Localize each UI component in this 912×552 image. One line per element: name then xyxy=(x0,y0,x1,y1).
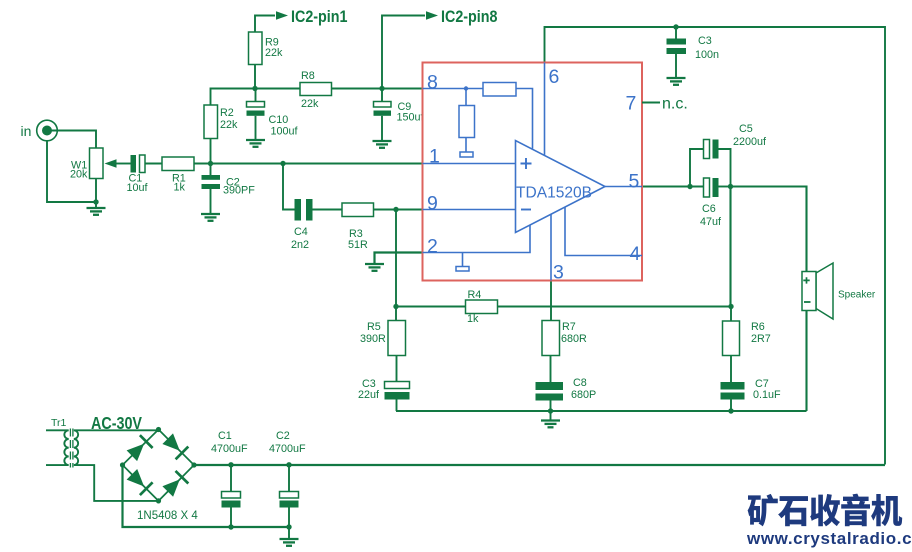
svg-text:1: 1 xyxy=(429,145,440,167)
wire pin3 internal xyxy=(550,214,552,281)
svg-text:C1: C1 xyxy=(218,430,232,442)
svg-text:IC2-pin1: IC2-pin1 xyxy=(291,8,348,26)
svg-text:22k: 22k xyxy=(265,47,283,59)
junction node R9/C10/R8 xyxy=(252,86,257,91)
svg-text:1N5408 X 4: 1N5408 X 4 xyxy=(137,510,198,522)
diode D2 (T to R) xyxy=(162,433,188,459)
wire bootstrap rail pin8 xyxy=(211,89,423,164)
svg-text:20k: 20k xyxy=(70,169,88,181)
diode D4 (B to R) xyxy=(162,471,188,497)
wire R7 to C8 xyxy=(550,356,552,383)
wire feedback rail xyxy=(396,305,731,307)
svg-text:680R: 680R xyxy=(561,333,587,345)
arrowhead W1 wiper xyxy=(105,159,117,167)
capacitor C7 xyxy=(721,382,745,400)
wire C1 to R1 xyxy=(145,163,162,165)
wire C5 left branch xyxy=(690,149,704,187)
svg-text:3: 3 xyxy=(553,262,564,284)
wire C3 to bottom rail xyxy=(396,400,398,412)
capacitor C1 xyxy=(131,155,146,173)
svg-text:C5: C5 xyxy=(739,123,753,135)
wire C7 to bottom rail xyxy=(730,400,732,412)
resistor R7 xyxy=(542,321,560,356)
wire pin5 to C6 xyxy=(642,186,704,188)
label speaker - xyxy=(804,301,811,303)
svg-text:100uf: 100uf xyxy=(271,126,299,138)
wire to bottom ground xyxy=(550,411,552,421)
svg-text:C4: C4 xyxy=(294,226,308,238)
wire pin4 internal xyxy=(565,207,642,255)
watermark logo text xyxy=(748,494,903,527)
wire W1 bottom to ground node xyxy=(95,179,97,209)
svg-text:C2: C2 xyxy=(276,430,290,442)
wire pin3 to R7 xyxy=(550,281,552,321)
capacitor C3 100n xyxy=(667,39,687,55)
svg-text:2200uf: 2200uf xyxy=(733,136,767,148)
diode D1 (L to T) xyxy=(127,435,153,461)
wire pin1 internal xyxy=(423,163,516,165)
wire node to C4 xyxy=(283,164,295,210)
svg-text:Tr1: Tr1 xyxy=(51,417,67,429)
svg-text:R4: R4 xyxy=(468,289,482,301)
svg-text:in: in xyxy=(21,123,32,139)
svg-text:5: 5 xyxy=(629,171,640,193)
resistor R3 xyxy=(342,203,374,217)
svg-text:22uf: 22uf xyxy=(358,389,380,401)
wire V- rail xyxy=(123,465,290,527)
capacitor C6 xyxy=(704,178,719,197)
transformer Tr1 secondary xyxy=(74,430,159,501)
ground pin2 xyxy=(365,264,384,271)
junction C1 supply top xyxy=(228,462,233,467)
label op-amp - input xyxy=(521,209,531,211)
wire C1 supply to rail xyxy=(230,508,232,528)
IC U1 outline box xyxy=(423,63,643,281)
wire C10 to ground xyxy=(255,116,257,140)
wire R5 to C3 xyxy=(396,356,398,382)
wire pin7 nc xyxy=(642,102,660,104)
junction node bottom ground xyxy=(548,408,553,413)
wire pin6 internal xyxy=(544,63,546,155)
wire R9 to IC2-pin1 xyxy=(255,16,275,89)
ground bottom network xyxy=(541,421,560,428)
capacitor C1 supply xyxy=(222,492,241,508)
junction node R6 top xyxy=(728,304,733,309)
wire pin5 internal xyxy=(605,186,642,188)
speaker LS1 xyxy=(802,263,833,319)
resistor R2 xyxy=(204,105,218,139)
svg-text:680P: 680P xyxy=(571,389,596,401)
svg-text:www.crystalradio.cn: www.crystalradio.cn xyxy=(746,529,912,548)
junction C1 supply bottom xyxy=(228,524,233,529)
svg-text:390R: 390R xyxy=(360,333,386,345)
wire C4 to R3 xyxy=(313,209,343,211)
wire to C2 supply xyxy=(288,465,290,492)
svg-text:2R7: 2R7 xyxy=(751,333,771,345)
wire to C9 xyxy=(381,89,383,102)
wire internal resistor to bar xyxy=(465,138,467,153)
transformer Tr1 primary xyxy=(46,430,69,465)
svg-text:22k: 22k xyxy=(301,98,319,110)
svg-text:R6: R6 xyxy=(751,321,765,333)
capacitor C2 xyxy=(202,175,221,189)
wire to supply ground xyxy=(288,527,290,539)
wire R3 to IC pin9 xyxy=(374,209,423,211)
svg-text:47uf: 47uf xyxy=(700,216,722,228)
op-amp U1 triangle xyxy=(516,141,606,233)
wire R6 to C7 xyxy=(730,356,732,383)
wire to C2 xyxy=(210,164,212,176)
internal terminal bar pin1 side xyxy=(460,152,473,157)
junction C2 supply bottom xyxy=(286,524,291,529)
wire jack to W1 xyxy=(47,131,96,149)
wire W1 wiper xyxy=(116,163,131,165)
svg-text:390PF: 390PF xyxy=(223,185,255,197)
ground C3 xyxy=(667,78,686,85)
wire internal resistor to opamp xyxy=(516,89,533,149)
junction node R1/R2/C2 xyxy=(208,161,213,166)
wire output to speaker xyxy=(731,187,807,272)
wire speaker to bottom rail xyxy=(805,311,807,412)
svg-text:R5: R5 xyxy=(367,321,381,333)
junction node pin9 feedback xyxy=(393,207,398,212)
svg-text:Speaker: Speaker xyxy=(838,290,876,301)
wire C2 to ground xyxy=(210,189,212,214)
junction node output left xyxy=(687,184,692,189)
wire bottom rail xyxy=(396,410,807,412)
wire V+ rail xyxy=(194,464,885,466)
wire internal to vertical resistor xyxy=(465,89,467,106)
capacitor C8 xyxy=(536,382,564,401)
wire jack ground return xyxy=(47,141,96,202)
junction bridge AC top xyxy=(156,427,161,432)
wire supply to C3 xyxy=(675,27,677,39)
capacitor C10 xyxy=(247,102,265,116)
wire pin2 internal xyxy=(423,225,531,252)
svg-text:R7: R7 xyxy=(562,321,576,333)
internal resistor a xyxy=(483,83,516,97)
capacitor C5 xyxy=(704,140,719,159)
ground supply xyxy=(280,539,299,546)
junction internal pin8 xyxy=(464,86,468,90)
resistor R4 xyxy=(466,300,498,314)
wire C9 to ground xyxy=(381,116,383,141)
svg-text:6: 6 xyxy=(549,66,560,88)
resistor R5 xyxy=(388,321,406,356)
bridge rectifier D1-D4 ring xyxy=(123,430,195,501)
resistor R9 xyxy=(249,32,263,65)
wire C6 to node xyxy=(719,186,731,188)
svg-text:n.c.: n.c. xyxy=(662,96,688,113)
ground C9 xyxy=(373,141,392,148)
transformer Tr1 core xyxy=(70,429,73,468)
junction node R5 top xyxy=(393,304,398,309)
label speaker + xyxy=(803,277,809,283)
junction bridge minus xyxy=(120,462,125,467)
svg-text:2n2: 2n2 xyxy=(291,239,309,251)
junction node bottom rail R6 xyxy=(728,408,733,413)
svg-text:R2: R2 xyxy=(220,107,234,119)
junction W1 ground node xyxy=(93,199,98,204)
internal terminal bar pin2 side xyxy=(456,267,469,272)
svg-text:IC2-pin8: IC2-pin8 xyxy=(441,8,498,26)
capacitor C9 xyxy=(374,102,392,116)
wire C2 supply to rail xyxy=(288,508,290,528)
junction node C9/pin8 xyxy=(379,86,384,91)
wire C5 right branch xyxy=(719,149,731,187)
svg-text:4: 4 xyxy=(630,243,641,265)
wire rail to R6 xyxy=(730,307,732,322)
junction bridge AC bottom xyxy=(156,498,161,503)
wire pin9 internal xyxy=(423,209,516,211)
resistor R8 xyxy=(300,83,332,96)
resistor R1 xyxy=(162,157,194,171)
arrowhead IC2-pin1 xyxy=(276,11,288,19)
wire to C10 xyxy=(255,89,257,102)
wire V+ supply loop (pin6 to rectifier) xyxy=(545,27,886,465)
svg-text:C3: C3 xyxy=(698,35,712,47)
wire R1 to IC pin1 xyxy=(194,163,423,165)
wire pin2 bar stem xyxy=(462,253,464,267)
svg-text:2: 2 xyxy=(427,235,438,257)
svg-text:51R: 51R xyxy=(348,239,368,251)
capacitor C4 xyxy=(295,199,313,221)
ground W1 xyxy=(87,208,106,215)
wire C3 to ground xyxy=(675,54,677,78)
connector input jack xyxy=(37,120,58,141)
wire rail to R5 xyxy=(395,307,397,321)
junction node C3 supply xyxy=(673,24,678,29)
svg-text:0.1uF: 0.1uF xyxy=(753,389,781,401)
resistor R6 xyxy=(723,321,740,356)
svg-text:9: 9 xyxy=(427,192,438,214)
ground C10 xyxy=(246,140,265,147)
potentiometer W1 xyxy=(90,148,104,179)
label op-amp + input xyxy=(521,158,532,169)
capacitor C2 supply xyxy=(280,492,299,508)
svg-text:TDA1520B: TDA1520B xyxy=(516,185,592,202)
svg-text:150uf: 150uf xyxy=(397,112,425,124)
junction bridge plus xyxy=(191,462,196,467)
svg-text:7: 7 xyxy=(626,93,637,115)
arrowhead IC2-pin8 xyxy=(426,11,438,19)
ground C2 xyxy=(201,214,220,221)
wire C9 node to IC2-pin8 xyxy=(382,16,425,89)
wire to C1 supply xyxy=(230,465,232,492)
svg-text:22k: 22k xyxy=(220,119,238,131)
svg-text:1k: 1k xyxy=(174,182,186,194)
svg-text:C6: C6 xyxy=(702,203,716,215)
svg-text:8: 8 xyxy=(427,71,438,93)
svg-text:C8: C8 xyxy=(573,377,587,389)
svg-text:10uf: 10uf xyxy=(127,182,149,194)
svg-text:4700uF: 4700uF xyxy=(211,443,248,455)
junction node output right xyxy=(728,184,733,189)
wire output to R6 rail xyxy=(729,187,731,307)
internal resistor b xyxy=(459,106,475,138)
junction node C4 branch xyxy=(280,161,285,166)
svg-text:100n: 100n xyxy=(695,49,719,61)
svg-text:4700uF: 4700uF xyxy=(269,443,306,455)
wire pin8 internal xyxy=(423,88,484,90)
junction C2 supply top xyxy=(286,462,291,467)
wire C8 to bottom rail xyxy=(550,401,552,412)
wire feedback node to R5 rail xyxy=(395,210,397,307)
diode D3 (L to B) xyxy=(127,469,153,495)
svg-text:R8: R8 xyxy=(301,70,315,82)
svg-text:C10: C10 xyxy=(269,114,289,126)
capacitor C3 22uf xyxy=(385,382,410,400)
wire pin2 to ground xyxy=(375,253,423,264)
svg-text:1k: 1k xyxy=(467,313,479,325)
